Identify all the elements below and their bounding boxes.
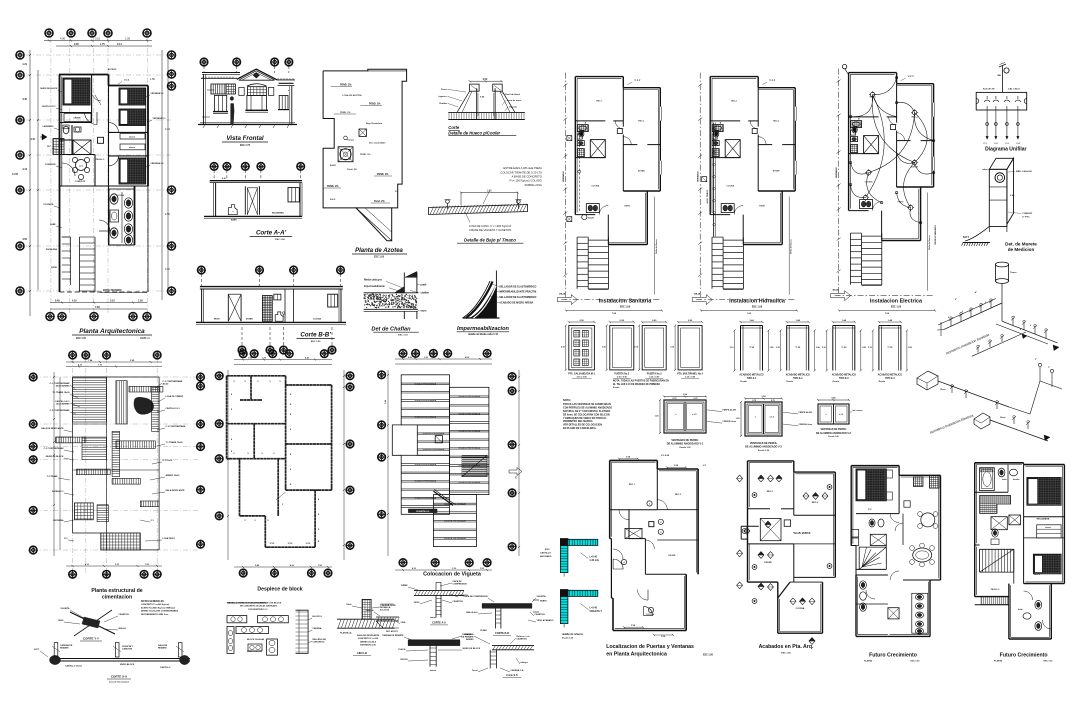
svg-text:2.10 x 0.90: 2.10 x 0.90	[577, 377, 588, 379]
svg-text:muro: muro	[421, 310, 428, 313]
patio label A	[100, 289, 147, 293]
svg-text:MALLA 6x6: MALLA 6x6	[466, 611, 478, 614]
futuro1 winder stair	[859, 547, 886, 569]
svg-text:IMPERMEABILIZANTE PRACTIM: IMPERMEABILIZANTE PRACTIM	[499, 291, 536, 294]
svg-text:ESC 1:50: ESC 1:50	[911, 661, 921, 663]
svg-text:Rollo de Nuevo: Rollo de Nuevo	[791, 239, 793, 254]
svg-text:BLOCK U: BLOCK U	[313, 616, 323, 618]
svg-text:CORTE Y-Y: CORTE Y-Y	[83, 637, 99, 641]
section right window	[288, 188, 299, 202]
murete labels	[963, 168, 1033, 239]
svg-text:COCINA: COCINA	[865, 181, 873, 184]
chaflan slab stipple	[363, 293, 417, 309]
cooler hole detail drawing	[448, 79, 525, 120]
svg-text:VIGUETA PRETENSADA: VIGUETA PRETENSADA	[414, 382, 436, 385]
section toilet profile	[228, 205, 237, 222]
svg-text:2%: 2%	[395, 191, 398, 193]
svg-text:Chaflan: Chaflan	[439, 103, 448, 105]
footing band lower-left-h	[76, 469, 110, 475]
footing band lower-right	[140, 501, 159, 507]
svg-text:Reja Tendedero: Reja Tendedero	[366, 123, 383, 125]
svg-text:CONDUIT: CONDUIT	[1022, 213, 1033, 215]
svg-text:Diagrama Unifilar: Diagrama Unifilar	[985, 147, 1026, 153]
grid bubbles top row A	[45, 29, 151, 37]
footing dark blob	[134, 397, 154, 414]
svg-text:REC-1: REC-1	[73, 96, 80, 98]
window detail V-2 small	[816, 398, 863, 439]
svg-text:cimentacion: cimentacion	[102, 595, 132, 601]
footing band top-mid vertical	[116, 381, 127, 424]
svg-text:REC-1: REC-1	[629, 484, 636, 486]
svg-text:VIGUETA PRETENSADA: VIGUETA PRETENSADA	[458, 430, 480, 433]
door arc bottom-left	[62, 163, 75, 176]
svg-text:SELLADOR DE ELASTOMERICO: SELLADOR DE ELASTOMERICO	[499, 296, 536, 299]
desplece dim chains	[227, 357, 345, 569]
grid bubbles Corte A-A	[210, 163, 304, 181]
svg-text:DE CONCRETO 15x20x40 JUNTEADO: DE CONCRETO 15x20x40 JUNTEADO	[240, 605, 278, 608]
svg-text:4.10: 4.10	[30, 138, 35, 141]
svg-text:MED. 0.60x0.60: MED. 0.60x0.60	[1016, 171, 1033, 173]
svg-text:B.A.P.: B.A.P.	[330, 164, 337, 167]
svg-text:PATIO TRASERO: PATIO TRASERO	[103, 289, 122, 292]
svg-text:Localizacion de Puertas y: Localizacion de Puertas y Ventanas	[606, 644, 694, 650]
svg-text:VENTANA V-2: VENTANA V-2	[151, 162, 165, 165]
svg-text:C-2 CONTRATRABE: C-2 CONTRATRABE	[166, 425, 186, 428]
svg-text:4.00: 4.00	[60, 37, 66, 41]
corte Y-Y detail	[58, 607, 129, 641]
svg-text:Kwh 2F-3H: Kwh 2F-3H	[983, 89, 995, 91]
svg-text:Escala 1:20: Escala 1:20	[680, 447, 692, 449]
svg-text:TIPO E-3: TIPO E-3	[839, 378, 849, 380]
svg-text:ACABADO METALICO: ACABADO METALICO	[786, 374, 810, 377]
svg-text:40x20 ARMEX: 40x20 ARMEX	[56, 385, 70, 388]
svg-text:closet: closet	[129, 146, 136, 149]
stair main flight	[62, 237, 95, 292]
grid bubbles Corte B-B	[198, 266, 345, 286]
grid bubbles below Corte B-B	[238, 327, 336, 354]
desplece walls outline	[225, 374, 333, 548]
elevation left block	[202, 73, 240, 125]
svg-text:ESC 1:50: ESC 1:50	[620, 306, 631, 309]
footing band center vertical	[112, 431, 120, 476]
futuro2 bed1	[1027, 478, 1061, 521]
svg-text:Tabla: Tabla	[346, 604, 352, 606]
svg-text:VIGUETA PRETENSADA: VIGUETA PRETENSADA	[414, 399, 436, 402]
vigueta bubbles top	[399, 350, 491, 358]
svg-text:VIGUETA: VIGUETA	[537, 595, 547, 598]
svg-text:ARMEX 15x20-4 EN CONTRATRABES: ARMEX 15x20-4 EN CONTRATRABES	[141, 610, 179, 613]
floor plan Instalacion Electrica	[831, 64, 935, 300]
svg-text:*7.35: *7.35	[841, 347, 847, 349]
W left small text	[380, 603, 394, 612]
svg-text:CRISTAL 6mm: CRISTAL 6mm	[799, 423, 813, 426]
svg-text:VIGUETA V-2: VIGUETA V-2	[416, 510, 430, 513]
svg-text:Escala: Escala	[879, 381, 886, 383]
svg-text:4.10: 4.10	[165, 128, 170, 131]
desplece note	[227, 602, 282, 611]
futuro2 X boxes	[991, 515, 1020, 530]
svg-text:COMEDOR: COMEDOR	[75, 181, 86, 183]
svg-text:detalle de Media caña 1:10: detalle de Media caña 1:10	[468, 333, 499, 336]
svg-text:0.14: 0.14	[117, 43, 122, 46]
dimension chains right A	[150, 50, 170, 300]
svg-text:13mm: 13mm	[940, 389, 946, 391]
svg-text:Pend. 2%: Pend. 2%	[374, 200, 386, 203]
svg-text:2.50: 2.50	[165, 213, 170, 216]
svg-text:*7.35: *7.35	[795, 347, 801, 349]
vigueta detail W3	[382, 633, 481, 672]
svg-text:ESC.: ESC.	[545, 549, 550, 551]
svg-text:DE ALUMINIO ANODIZADO V-1: DE ALUMINIO ANODIZADO V-1	[667, 443, 704, 446]
svg-text:Desplece de block: Desplece de block	[257, 587, 302, 593]
svg-text:REMATE: REMATE	[158, 647, 167, 650]
footing band lower-mid-h	[112, 478, 140, 484]
svg-text:MEDIDAS DE BLOCK DE CONCRETO: MEDIDAS DE BLOCK DE CONCRETO	[227, 602, 266, 605]
svg-text:2.10 x 0.90: 2.10 x 0.90	[617, 377, 628, 379]
bathroom fixtures	[63, 125, 81, 134]
svg-text:CASTILLO 15x15: CASTILLO 15x15	[65, 665, 83, 668]
title Planta Arquitectonica	[72, 328, 152, 340]
svg-text:ESTRIBOS @20: ESTRIBOS @20	[360, 645, 376, 647]
svg-text:CONCRETO F´c=200 Kg/cm2: CONCRETO F´c=200 Kg/cm2	[141, 603, 170, 606]
svg-text:Acabados en Pta. Arq.: Acabados en Pta. Arq.	[759, 644, 814, 650]
dining table set	[72, 157, 89, 179]
impermeabilizacion labels	[490, 284, 536, 304]
svg-text:1.50: 1.50	[125, 37, 131, 41]
bed recamara 1	[63, 78, 90, 105]
title Vista Frontal	[222, 135, 268, 147]
svg-text:Instalacion Electrica: Instalacion Electrica	[870, 299, 923, 305]
svg-text:ESC 1:50: ESC 1:50	[1044, 661, 1054, 663]
nota text block middle	[563, 398, 612, 430]
svg-text:de Medicion: de Medicion	[1008, 247, 1035, 252]
svg-text:CASETON: CASETON	[517, 638, 528, 641]
acabados diamond tags middle	[742, 521, 811, 535]
svg-text:VIGUETA PRETENSADA: VIGUETA PRETENSADA	[458, 412, 480, 415]
kitchen door arc	[99, 220, 110, 231]
door arc bedrooms right	[109, 122, 119, 165]
svg-text:VARIABLE: VARIABLE	[697, 171, 700, 183]
roof cooler detail	[338, 147, 353, 162]
title Acabados	[759, 644, 814, 655]
title Det de Murete	[1005, 242, 1037, 253]
svg-text:LAVADERO: LAVADERO	[43, 125, 54, 128]
svg-text:REC-2: REC-2	[638, 121, 645, 123]
svg-text:COLOCACION: COLOCACION	[380, 603, 394, 606]
svg-text:LOSA DE AZOTEA: LOSA DE AZOTEA	[342, 94, 362, 97]
svg-text:Planta Arquitectonica: Planta Arquitectonica	[79, 328, 145, 335]
svg-text:ESC 1:50: ESC 1:50	[891, 306, 902, 309]
footing band right vertical	[152, 386, 160, 431]
svg-text:CADENA DE: CADENA DE	[60, 644, 73, 647]
acabados diamond tags lower	[737, 564, 832, 645]
futuro1 lower bath	[860, 571, 928, 634]
vigueta block5	[433, 495, 476, 547]
svg-text:N.P.T.: N.P.T.	[34, 649, 40, 651]
door elevation puerta 2	[602, 320, 635, 379]
svg-text:DALA DE DESPLANTE: DALA DE DESPLANTE	[357, 634, 380, 637]
title Instalacion Sanitaria	[565, 299, 663, 316]
svg-text:DET. APOYO: DET. APOYO	[386, 630, 398, 633]
elevation center gable	[237, 69, 277, 112]
svg-text:VIGUETA PRETENSADA: VIGUETA PRETENSADA	[414, 463, 436, 466]
svg-text:BAÑO: BAÑO	[231, 219, 237, 222]
vigueta stair dark triangle	[462, 455, 487, 476]
cooler detail leader labels	[438, 89, 521, 116]
door elevation puerta 3	[634, 320, 667, 379]
futuro2 wc2	[991, 529, 999, 545]
svg-text:pretil: pretil	[421, 284, 427, 287]
roof plan outline Planta de Azotea	[323, 69, 407, 241]
svg-text:C-1 CONTRATRABE: C-1 CONTRATRABE	[163, 380, 183, 383]
svg-text:NOTA:: NOTA:	[563, 398, 571, 402]
metal frame E-3	[822, 319, 867, 383]
svg-text:RECAMARA: RECAMARA	[1037, 518, 1050, 521]
futuro1 dining	[910, 543, 935, 567]
svg-text:Tinaco: Tinaco	[347, 140, 355, 142]
svg-text:com: com	[79, 166, 83, 168]
svg-text:ARMEX 15x20-4: ARMEX 15x20-4	[360, 640, 377, 643]
svg-text:chaflan: chaflan	[421, 292, 430, 295]
elevation ground line	[198, 123, 297, 128]
corte E-E small detail left	[366, 609, 406, 633]
svg-text:CASTILLO: CASTILLO	[160, 666, 171, 669]
section B-B small window top	[274, 294, 281, 300]
svg-text:closet: closet	[1045, 526, 1051, 529]
vigueta detail W1	[401, 580, 468, 625]
section B-B labels	[214, 318, 321, 321]
structural bubbles top	[69, 351, 161, 359]
svg-text:TIPO E-2: TIPO E-2	[793, 378, 803, 380]
block channel detail	[296, 610, 327, 653]
svg-text:A BASE DE VIGUETA Y CASETON: A BASE DE VIGUETA Y CASETON	[469, 228, 511, 232]
grid bubbles left column A	[16, 51, 24, 295]
svg-text:Futuro Crecimiento: Futuro Crecimiento	[869, 653, 917, 659]
svg-text:0.60: 0.60	[483, 79, 488, 81]
svg-text:Escala: Escala	[740, 381, 747, 383]
block piece details	[227, 602, 288, 656]
svg-text:REC-2: REC-2	[128, 99, 135, 101]
svg-text:CASTILLO K-1: CASTILLO K-1	[55, 400, 70, 403]
closet recamara 1	[64, 114, 91, 122]
leader labels left of A	[40, 88, 62, 269]
svg-text:T-2 TRABE: T-2 TRABE	[47, 475, 58, 478]
svg-text:MURO DE BLOCK: MURO DE BLOCK	[463, 648, 481, 650]
metal frame E-1	[730, 319, 775, 383]
futuro1 door arcs	[868, 509, 903, 531]
acabados bath X	[760, 518, 790, 540]
svg-text:MALLA: MALLA	[366, 609, 374, 612]
svg-text:ACERO Fy=4200 Kg/cm2 VARILLA: ACERO Fy=4200 Kg/cm2 VARILLA	[141, 606, 175, 609]
svg-text:YESO: YESO	[58, 620, 64, 622]
svg-text:2" PVC: 2" PVC	[1022, 217, 1030, 219]
svg-text:ESTAR: ESTAR	[773, 170, 780, 173]
svg-text:BLOCK 15x20x40: BLOCK 15x20x40	[247, 638, 265, 641]
footing band top-left	[73, 377, 107, 422]
futuro2 plan walls	[975, 463, 1065, 639]
exterior planter grid	[53, 139, 64, 155]
svg-text:VIGUETA PRETENSADA: VIGUETA PRETENSADA	[458, 447, 480, 450]
metal frame E-2	[776, 319, 821, 383]
svg-text:CASTILLO K-1: CASTILLO K-1	[42, 105, 57, 108]
room labels localizacion	[629, 484, 682, 616]
door elevation multipanel	[670, 320, 703, 379]
acabados diamond tags mid-left	[737, 550, 774, 569]
svg-text:PERFIL ALUM.: PERFIL ALUM.	[723, 409, 737, 412]
svg-text:CIM C-B: CIM C-B	[357, 651, 367, 655]
svg-text:EL TALLER 2.10 DE MADERA DE PR: EL TALLER 2.10 DE MADERA DE PRIMERA	[613, 383, 660, 386]
svg-text:ESTAR: ESTAR	[764, 561, 772, 564]
svg-text:ACABADO METALICO: ACABADO METALICO	[878, 374, 902, 377]
svg-text:AHOGADO: AHOGADO	[540, 555, 552, 558]
room labels A	[73, 96, 135, 197]
svg-text:COCINA: COCINA	[591, 185, 599, 188]
title Det de Chaflan	[371, 327, 418, 337]
cyan detail refuerzo 1	[540, 539, 600, 577]
svg-text:REC-2: REC-2	[912, 117, 919, 119]
svg-text:V-2.2: V-2.2	[124, 80, 130, 82]
svg-text:ACABADO DE MICRO ARENA: ACABADO DE MICRO ARENA	[499, 301, 533, 304]
roof plan extra labels	[330, 94, 398, 201]
svg-text:V-2 0.60: V-2 0.60	[661, 455, 670, 457]
svg-text:*7.35: *7.35	[887, 347, 893, 349]
svg-text:CONCRETO: CONCRETO	[313, 642, 325, 644]
elevation right block	[278, 83, 295, 124]
svg-text:6x6-10/10: 6x6-10/10	[380, 610, 390, 612]
futuro1 plan walls	[851, 466, 940, 637]
svg-text:CLIMA: CLIMA	[480, 629, 487, 632]
person silhouette	[230, 97, 234, 125]
footing grid patio	[101, 533, 141, 550]
desplece bubbles bottom	[239, 569, 331, 577]
svg-text:2.10 x 0.90: 2.10 x 0.90	[649, 377, 660, 379]
vigueta bubbles left	[378, 371, 386, 518]
svg-text:ESC 1:50: ESC 1:50	[76, 338, 87, 340]
bathroom walls and X-closet	[73, 140, 91, 155]
svg-text:lad. cocina: lad. cocina	[853, 410, 864, 412]
svg-text:Escala: Escala	[613, 387, 620, 389]
svg-text:Planta de Azotea: Planta de Azotea	[355, 248, 403, 254]
localizacion window dims	[618, 455, 707, 638]
title Desplece	[257, 587, 302, 593]
svg-text:Impermeabilizante: Impermeabilizante	[364, 285, 386, 288]
svg-text:CASETON: CASETON	[535, 613, 546, 616]
svg-text:PATIO: PATIO	[51, 266, 57, 269]
svg-text:SUBE: SUBE	[50, 224, 56, 226]
section B-B left door	[228, 294, 241, 321]
svg-text:REC-2: REC-2	[812, 502, 819, 504]
title Futuro 1	[864, 653, 920, 663]
closet shelf recamara 2-3	[120, 134, 145, 150]
svg-text:YESO: YESO	[414, 602, 420, 604]
svg-text:PTA. MULTIPANEL No.4: PTA. MULTIPANEL No.4	[677, 372, 703, 375]
vigueta left notch	[392, 425, 401, 455]
svg-text:CORTE B-B: CORTE B-B	[495, 632, 509, 635]
svg-text:MALLA: MALLA	[119, 627, 127, 630]
isometrico instalacion electrica	[917, 363, 1062, 441]
svg-text:B.A.N.: B.A.N.	[588, 217, 594, 220]
dimension chains bottom A	[50, 300, 147, 310]
bed recamara 3	[119, 109, 146, 126]
svg-text:3.40: 3.40	[22, 98, 27, 101]
svg-text:Futuro Crecimiento: Futuro Crecimiento	[1000, 653, 1048, 659]
svg-text:REC-2: REC-2	[773, 121, 780, 123]
svg-text:tarima: tarima	[430, 616, 437, 619]
svg-text:REC-3: REC-3	[128, 171, 135, 173]
svg-text:PLANTA: PLANTA	[864, 660, 873, 663]
structural dim chains	[53, 359, 162, 567]
svg-text:Pend. 2%: Pend. 2%	[347, 169, 357, 171]
svg-text:NOTAS GENERALES: NOTAS GENERALES	[141, 600, 164, 603]
svg-text:ESC 1:50: ESC 1:50	[374, 257, 385, 259]
futuro2 tub	[980, 468, 995, 491]
tinaco spec text block	[500, 166, 542, 187]
title Colocacion de Vigueta	[423, 572, 482, 578]
floor plan Instalacion Sanitaria	[557, 73, 661, 305]
futuro2 bed2	[1033, 554, 1061, 574]
svg-text:Imperm.: Imperm.	[438, 96, 447, 98]
svg-text:T-1 TRABE 15x20: T-1 TRABE 15x20	[166, 441, 184, 444]
svg-text:baño: baño	[1002, 478, 1008, 481]
svg-text:detalle de refuerzo: detalle de refuerzo	[562, 633, 584, 636]
svg-text:SELLADOR DE ELASTOMERICO: SELLADOR DE ELASTOMERICO	[499, 285, 536, 288]
svg-text:REC-2: REC-2	[1034, 574, 1041, 576]
vigueta block1	[401, 375, 449, 425]
vigueta block4	[401, 455, 449, 514]
svg-text:COMEDOR: COMEDOR	[45, 164, 56, 166]
svg-text:CON MORTERO 1:3: CON MORTERO 1:3	[248, 609, 268, 611]
svg-text:VIGUETA PRETENSADA: VIGUETA PRETENSADA	[414, 416, 436, 419]
futuro1 bath	[851, 519, 886, 546]
svg-text:CAPA DE COMPRESION: CAPA DE COMPRESION	[464, 595, 488, 598]
svg-text:CASTILLO: CASTILLO	[540, 551, 551, 554]
chaflan wall section	[364, 272, 418, 320]
svg-text:ACABADO METALICO: ACABADO METALICO	[832, 374, 856, 377]
svg-text:TIPO E-1: TIPO E-1	[747, 378, 757, 380]
svg-text:ESC 1:50: ESC 1:50	[703, 655, 714, 657]
svg-text:DE ALUMINIO ANODIZADO V-3: DE ALUMINIO ANODIZADO V-3	[745, 446, 782, 449]
title Instalacion Hidraulica	[700, 299, 798, 316]
dimension chains left A	[12, 50, 39, 316]
desplece bubbles top	[239, 350, 328, 358]
svg-text:PTA. GALVANIZADA M-1: PTA. GALVANIZADA M-1	[568, 372, 595, 375]
svg-text:PLANTA: PLANTA	[994, 660, 1003, 663]
svg-text:4": 4"	[975, 291, 977, 294]
svg-text:Impermeabilizacion: Impermeabilizacion	[457, 326, 509, 332]
svg-text:VIGUETA PRETENSADA: VIGUETA PRETENSADA	[444, 520, 466, 523]
footing band top-right	[129, 386, 163, 392]
svg-text:11.50: 11.50	[12, 173, 19, 176]
svg-text:LOSA PATIO: LOSA PATIO	[163, 537, 176, 540]
svg-text:V-2.2: V-2.2	[634, 78, 641, 82]
svg-text:PEND. 2%: PEND. 2%	[369, 103, 381, 106]
section B-B stair panel dark	[262, 296, 272, 322]
svg-text:ESC 1:50: ESC 1:50	[752, 306, 763, 309]
svg-text:ESTAR: ESTAR	[638, 170, 645, 173]
door arc corridor	[85, 112, 98, 125]
svg-text:Instalacion Sanitaria: Instalacion Sanitaria	[599, 299, 652, 305]
svg-text:VIGUETA PRETENSADA: VIGUETA PRETENSADA	[423, 448, 445, 451]
svg-text:Tornil: Tornil	[472, 669, 478, 672]
svg-text:BAJA: BAJA	[694, 293, 700, 296]
svg-text:CADENA: CADENA	[465, 633, 474, 636]
desplece walls interior	[227, 376, 332, 516]
svg-text:DALA DESPLANTE: DALA DESPLANTE	[166, 489, 185, 492]
svg-text:40x20: 40x20	[163, 383, 170, 386]
svg-text:REC-1: REC-1	[596, 101, 603, 103]
title Futuro 2	[994, 653, 1053, 663]
grid bubbles right column A	[168, 51, 176, 295]
